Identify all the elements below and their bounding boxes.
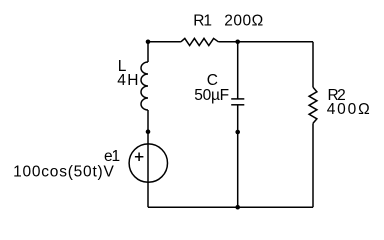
- svg-text:200Ω: 200Ω: [224, 12, 263, 29]
- wire middle branch upper: [237, 42, 239, 99]
- wire top-left segment: [148, 41, 181, 43]
- wire bottom: [148, 206, 313, 208]
- svg-text:50µF: 50µF: [194, 87, 229, 104]
- wire left branch upper: [147, 42, 149, 62]
- svg-text:R1: R1: [193, 12, 212, 29]
- node dot left branch: [146, 129, 151, 134]
- node dot bottom-middle: [235, 205, 240, 210]
- source e1 circle: [129, 144, 167, 182]
- source e1 plus sign: [135, 153, 144, 162]
- inductor L: [141, 62, 148, 110]
- wire top-right segment: [218, 41, 313, 43]
- svg-text:400Ω: 400Ω: [327, 101, 370, 118]
- capacitor C bottom plate: [231, 104, 244, 106]
- svg-text:4H: 4H: [117, 72, 139, 89]
- wire right branch upper: [312, 42, 314, 88]
- node dot top-middle: [235, 40, 240, 45]
- wire middle branch lower: [237, 105, 239, 207]
- capacitor C top plate: [231, 98, 244, 100]
- wire right branch lower: [312, 123, 314, 207]
- node dot middle branch: [235, 130, 240, 135]
- resistor R2: [309, 87, 317, 123]
- svg-text:100cos(50t)V: 100cos(50t)V: [13, 163, 114, 180]
- resistor R1: [181, 38, 219, 45]
- node dot top-left: [146, 40, 151, 45]
- wire left branch lower: [147, 110, 149, 207]
